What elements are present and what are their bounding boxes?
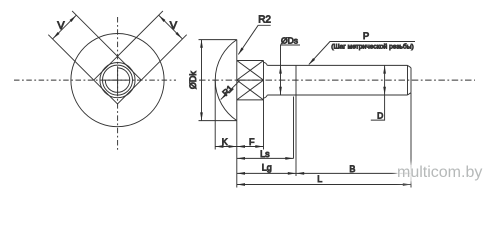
svg-text:K: K — [222, 137, 228, 147]
dimension line V left — [53, 15, 77, 39]
arrow V left lower — [52, 32, 60, 40]
arrow K right — [229, 145, 237, 148]
arrow K left — [215, 145, 223, 148]
arrow Lg left — [237, 172, 245, 175]
extension line through right corner for right V — [141, 35, 186, 80]
extension line Dk top — [199, 39, 237, 41]
extension line thread boundary — [295, 95, 297, 176]
arrow P — [308, 58, 316, 66]
square neck lower diagonal 1 — [237, 80, 264, 100]
square neck upper diagonal 1 — [237, 61, 264, 81]
watermark multicom.by — [397, 165, 500, 181]
head bearing face line — [236, 40, 238, 121]
node front-view horizontal centerline — [14, 79, 176, 81]
thread runout boundary line — [295, 65, 297, 95]
leader R1 — [221, 81, 240, 100]
extension line neck end — [263, 100, 265, 150]
svg-text:R2: R2 — [258, 15, 271, 26]
arrow V left upper — [70, 14, 78, 22]
arrow L left — [237, 183, 245, 186]
square neck lower diagonal 2 — [237, 80, 264, 100]
arrow B right — [403, 172, 411, 175]
node front-view vertical centerline long dash — [117, 70, 119, 92]
extension line through top corner for right V — [118, 11, 163, 56]
arrow F right — [255, 145, 263, 148]
shank circle Ds front view — [103, 65, 133, 95]
square neck right edge — [263, 61, 265, 100]
arrow V right lower — [175, 32, 183, 40]
extension line Dk bottom — [199, 120, 237, 122]
node front-view horizontal centerline long dash — [105, 79, 127, 81]
extension line through top corner for left V — [72, 11, 117, 56]
svg-text:F: F — [249, 137, 255, 147]
arrow B left — [296, 172, 304, 175]
arrow F left — [237, 145, 245, 148]
arrow D bottom — [383, 87, 386, 95]
fillet circle under head front view — [100, 63, 135, 98]
svg-text:V: V — [170, 20, 178, 32]
leader P with shelf — [309, 42, 415, 65]
arrow D top — [383, 65, 386, 73]
svg-text:P: P — [363, 31, 369, 42]
dimension line diameter Ds — [281, 45, 301, 95]
extension line smooth shank end — [293, 97, 295, 159]
svg-text:Ls: Ls — [260, 149, 270, 159]
node front-view vertical centerline — [117, 17, 119, 151]
svg-text:(Шаг метрической резьбы): (Шаг метрической резьбы) — [331, 42, 414, 50]
svg-text:ØDs: ØDs — [281, 36, 298, 46]
arrow Dk bottom — [200, 112, 203, 120]
dimension line V right — [159, 15, 183, 39]
head dome arc side view — [215, 40, 237, 121]
arrow Dk top — [200, 40, 203, 48]
svg-text:L: L — [317, 174, 322, 184]
extension line under head face — [236, 121, 238, 188]
dimension line K — [215, 146, 237, 148]
square neck top edge — [237, 60, 264, 62]
extension line through left corner for left V — [48, 35, 93, 80]
arrow Ls right — [285, 157, 293, 160]
shank top edge — [267, 64, 407, 66]
svg-text:D: D — [377, 111, 383, 121]
square neck middle edge — [237, 79, 264, 81]
bolt end face — [410, 68, 412, 93]
arrow V right upper — [158, 14, 166, 22]
arrow R2 — [237, 47, 244, 55]
svg-text:B: B — [349, 164, 355, 174]
square neck diamond front view — [94, 56, 142, 104]
fillet neck to shank top — [264, 62, 268, 65]
head outline circle Dk front view — [71, 34, 164, 127]
svg-text:ØDk: ØDk — [188, 71, 198, 90]
dimension line Lg — [237, 172, 296, 174]
arrow Lg right — [288, 172, 296, 175]
dimension line diameter Dk — [201, 40, 203, 121]
side-view axis centerline — [199, 79, 475, 81]
tip chamfer top diagonal — [408, 65, 412, 67]
arrow Ls left — [237, 157, 245, 160]
square neck upper diagonal 2 — [237, 61, 264, 81]
dimension line B — [296, 172, 411, 174]
arrow R1 — [220, 93, 228, 101]
tip chamfer line — [407, 65, 409, 95]
dimension line L — [237, 184, 411, 186]
leader R2 — [238, 25, 270, 54]
shank bottom edge — [267, 94, 407, 96]
tip chamfer bottom diagonal — [408, 93, 412, 95]
dimension line F — [237, 146, 264, 148]
arrow Ds bottom — [279, 87, 282, 95]
extension line K left at dome apex — [214, 81, 216, 150]
dimension line D — [371, 65, 385, 120]
dimension line Ls — [237, 157, 294, 159]
arrow L right — [403, 183, 411, 186]
thread minor diameter 3/4 circle front view — [105, 68, 129, 92]
arrow Ds top — [279, 65, 282, 73]
extension line bolt tip — [410, 93, 412, 188]
square neck bottom edge — [237, 99, 264, 101]
svg-text:Lg: Lg — [262, 163, 272, 173]
svg-text:V: V — [57, 20, 65, 32]
svg-text:R1: R1 — [220, 83, 235, 98]
fillet neck to shank bottom — [264, 95, 268, 98]
